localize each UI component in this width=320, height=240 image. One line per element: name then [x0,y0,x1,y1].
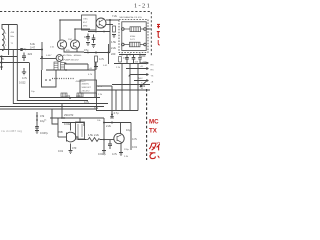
resistor R10 [119,57,122,63]
svg-text:10μ: 10μ [126,128,131,132]
svg-text:4.7k: 4.7k [88,74,93,76]
FL1 element lower hatch [131,42,138,47]
svg-text:2SC372: 2SC372 [82,91,91,93]
wire: arrow line y80 [134,80,149,82]
red margin clipped glyph top1 [157,24,160,28]
wire: FL1 upper output [146,28,151,30]
wire: S-meter vertical x37 [36,112,38,126]
wire: FL1 upper internal left [124,28,130,30]
svg-text:D-21: D-21 [130,39,136,41]
svg-text:§: § [5,33,7,35]
red margin note hiragana DE [150,153,156,159]
svg-text:B: B [2,57,4,61]
wire: long vertical outer [13,50,108,104]
wire: long vertical inner from top corner [17,25,88,101]
svg-text:455kHz: 455kHz [82,84,89,86]
transistor Q2 internals [73,42,77,48]
wire: x52 vertical to y124 [52,109,58,124]
wire: Q6 collector [120,123,122,134]
FL1 terminal: lower left [122,43,125,46]
wire: FL1 upper internal right [141,28,144,30]
wire: corner from box x116 [97,90,117,111]
ground: under C2 [86,43,90,46]
node: x37 y116 [36,115,38,117]
resistor R5 zigzag [86,138,102,142]
red margin clipped glyph top3 [158,40,160,45]
wire: top-left L to mixer [60,19,82,21]
svg-text:1.5k: 1.5k [88,133,94,137]
svg-text:MC: MC [149,119,159,126]
node: x66 y70 [65,69,67,71]
svg-text:+B: +B [151,82,154,84]
wire: emitters to rail [64,49,84,53]
mechanical filter FL1 inner case [122,22,146,51]
wire: vertical x138 [137,64,139,111]
FL1 terminal: upper left [122,28,125,31]
svg-text:45.7: 45.7 [83,22,88,24]
svg-text:10k: 10k [97,120,101,122]
capacitor C1 [22,53,26,62]
svg-text:+B: +B [140,66,143,68]
FL1 terminal: upper right [144,28,147,31]
wire: vertical x108 lower [108,44,110,64]
svg-text:2.2k: 2.2k [116,67,121,69]
node: x62 y106.5 [61,106,63,108]
ground: under R3 [94,67,98,70]
wire: horizontal y56 [0,56,17,58]
wire: arrow line y68 [126,68,149,70]
wire: top page-boundary dashed line [0,11,151,13]
wire: Q6 emitter [119,144,123,156]
node: junction y52 [95,52,97,54]
svg-text:45B: 45B [58,130,63,134]
wire: mixer to filter [106,19,119,21]
wire: U link under IF stage [42,70,57,87]
node: y31 dot x104 [103,31,105,33]
wire: vertical x130 [129,64,131,111]
node: x112 y122.5 [111,122,113,124]
wire: arrow line y63 [140,62,149,64]
wire: bus y106.5 [0,106,104,108]
node: row dots [121,54,123,56]
svg-text:1.5k: 1.5k [111,40,117,44]
node: junction left y56 [0,55,2,57]
wire: Q5 to R5 [76,137,86,140]
wire: R5 to Q6 base [100,139,114,141]
resistor R3 [95,56,98,62]
node: Q6 base dot [103,139,105,141]
capacitor C9 [110,117,114,119]
wire: right page-boundary dashed line lower [146,89,148,160]
wire: diagonal arrow [140,82,146,88]
wire: corner from box x112 [97,86,113,118]
svg-text:220: 220 [76,94,81,98]
wire: vertical x95 [94,62,96,98]
transistor Q6 circle [114,133,124,143]
transistor Q1 circle [57,40,66,49]
wire: FL1 lower internal left [124,44,129,46]
FL1 terminal: lower right [144,43,147,46]
mechanical filter FL1 dashed box [119,20,148,53]
svg-text:47p: 47p [22,47,27,51]
svg-text:2SC: 2SC [68,39,73,41]
svg-text:M: M [141,88,143,90]
wire: horizontal y62 [0,62,29,64]
wire: y122 mid branch [62,123,84,127]
wire: y64 upper rail [66,64,88,70]
ground: under R2 [112,35,116,38]
svg-text:45.7MHz→455kHz: 45.7MHz→455kHz [63,54,82,57]
IF transformer T2 box [76,122,85,139]
dotted row: IF strip [52,78,74,80]
svg-text:10k: 10k [66,94,71,98]
resistor R9 hatch [61,64,65,68]
resistor R7 hatch [79,93,82,97]
svg-text:4.7k: 4.7k [22,76,28,80]
node: small circle y49.5 [20,48,22,50]
svg-text:4.7k: 4.7k [84,100,90,104]
svg-text:10μ: 10μ [31,91,35,93]
svg-text:4.7k: 4.7k [112,152,118,156]
wire: line y84 [112,84,150,86]
wire: bus vertical mid-left [30,63,101,98]
node: left col dot3 [0,66,2,68]
red margin note dakuten [157,142,160,144]
node: dot a [45,79,47,81]
FL1 element upper hatch [132,27,139,32]
ground: under x104 [102,151,106,154]
ground: under Q5 [69,151,73,154]
wire: vertical x122 [121,64,123,111]
FL1 element upper [130,27,141,32]
red margin note katakana DA [149,143,156,150]
transformer T1 core [8,25,10,55]
svg-text:0.01: 0.01 [58,149,64,153]
node: junction left y62 [0,61,2,63]
transistor Q5 body [67,132,77,142]
svg-text:SSB DET: SSB DET [82,87,92,89]
svg-text:7.2k: 7.2k [112,14,118,18]
svg-text:1-21: 1-21 [134,3,151,10]
svg-text:455: 455 [11,32,15,34]
svg-text:RX: RX [151,65,155,67]
svg-text:TX: TX [151,76,154,78]
wire: y52 row to x110 [84,52,110,54]
wire: vertical x60 down to Q1 [59,20,61,40]
red margin note comma [158,156,159,158]
node: junction x108.5 y52.5 [108,52,110,54]
ground: S-meter [35,131,39,134]
wire: arrow line y74 [129,74,149,77]
svg-text:4.7k: 4.7k [99,57,105,61]
svg-text:MHz: MHz [83,26,88,28]
wire: x96 down from box [96,93,98,111]
svg-text:0.01: 0.01 [132,145,138,149]
svg-text:47μ: 47μ [84,48,89,52]
svg-text:2SC372: 2SC372 [64,113,74,117]
svg-text:kHz: kHz [11,36,15,38]
svg-text:10k: 10k [141,84,146,88]
transistor Q4 circle [56,55,63,62]
svg-text:220μ: 220μ [124,149,130,151]
wire: line y90 [112,89,150,91]
capacitor C8 [108,140,112,149]
node: x104 y122 [103,122,105,124]
wire: vertical x62 [61,104,63,118]
wire: y31 row [88,31,110,33]
detector box [80,80,97,93]
node: x62 y118 [61,117,63,119]
node: x66 y97 [69,97,71,99]
svg-text:220: 220 [141,54,146,58]
node: blob x64 y63 [65,63,67,65]
wire: y70 rail [46,69,95,71]
transistor Q6 internals [117,135,121,144]
svg-text:2.2k: 2.2k [111,46,117,50]
svg-text:10k: 10k [94,106,99,110]
capacitor C10 [138,55,142,64]
wire: x104 vertical [103,118,105,150]
wire: horizontal y50 [0,49,42,51]
resistor R7 on bus [77,93,83,97]
svg-text:2.2k: 2.2k [94,133,100,137]
resistor R6 hatch [63,93,66,97]
capacitor C2 [86,34,90,42]
FL1 element lower [130,42,141,47]
ground: under C3 [92,45,96,48]
transformer T1 winding [2,29,4,51]
wire: vertical x75 down to Q2 [74,29,76,40]
wire: bus y118 [50,117,104,119]
wire: cluster row y63.5 [114,63,146,65]
resistor R9 vertical [61,63,65,71]
T2 internal [78,124,82,137]
capacitor C5 [125,55,129,64]
svg-text:0.022: 0.022 [19,81,26,85]
svg-text:220: 220 [111,52,116,56]
svg-text:2.2k: 2.2k [98,94,103,96]
transistor Q3 mixer circle [96,18,106,28]
resistor R8 hatch [54,64,58,68]
wire: vertical x110 [109,20,111,53]
svg-text:1k: 1k [44,120,47,122]
wire: filter bottom row [119,54,146,56]
svg-text:t tu d m367 mrg: t tu d m367 mrg [1,129,22,133]
wire: inner L to Q2 [75,28,90,30]
capacitor C6 [132,55,136,64]
transistor Q3 internals [99,20,103,28]
svg-text:0.01: 0.01 [84,35,90,39]
capacitor C3 [92,35,96,44]
node: junction x110 y20 [109,19,111,21]
svg-text:T1: T1 [11,43,14,45]
node: y31 dot x96 [95,31,97,33]
wire: vertical x42 [41,42,43,70]
wire: right page-boundary dashed line upper [150,12,152,57]
wire: x131 vertical [130,123,132,151]
wire: R3 bottom [95,62,97,66]
wire: T1 top to node [2,25,17,30]
svg-text:0.047: 0.047 [46,55,52,57]
svg-text:0.047μ: 0.047μ [40,131,48,135]
transistor Q4 internals [58,56,61,61]
wire: bus y110.5 right half [96,110,138,112]
node: y118 dot x64 [63,117,65,119]
wire: Q2 emitter [76,49,78,53]
node: dot b [49,79,51,81]
wire: Q4 base [40,58,56,60]
svg-text:IF AMP 2SC372: IF AMP 2SC372 [63,59,79,62]
wire: Q5 emitter down [70,144,72,151]
wire: Q5 base [58,136,67,138]
wire: left column stub [1,57,3,71]
svg-text:47k: 47k [40,114,45,118]
svg-text:0.01: 0.01 [103,65,108,67]
wire: mixer second lead [106,24,113,26]
svg-text:RX: RX [151,70,155,72]
svg-text:TX: TX [149,128,158,135]
wire: Q5 collector up [70,123,72,131]
svg-text:AGC: AGC [138,77,143,80]
svg-text:4.7k: 4.7k [132,137,138,141]
red margin note katakana I [157,144,160,151]
wire: x58 vertical [57,118,59,137]
resistor R8 vertical [54,62,58,70]
svg-text:.022: .022 [27,52,33,56]
transistor Q2 circle [70,40,79,49]
svg-text:0.022μ: 0.022μ [98,152,106,156]
svg-text:§: § [5,45,7,47]
node: corner dot x75 y29 [74,28,76,30]
wire: bus y109 [0,108,96,110]
svg-text:0.47: 0.47 [30,46,36,50]
oscillator box [82,15,97,30]
svg-text:4.7μ: 4.7μ [114,111,120,115]
resistor R2 [113,26,116,32]
ground: under C1 [22,68,26,75]
wire: T2 top [79,118,81,122]
svg-text:§: § [5,39,7,41]
tiny component value texts [2,14,154,158]
transistor Q1 internals [60,42,64,48]
svg-text:2.2k: 2.2k [106,124,112,128]
svg-text:0.01: 0.01 [50,47,55,49]
node: x42 y49.5 [41,49,43,51]
red margin clipped glyph top2 [157,31,160,38]
node: corner dot x60 y20 [59,19,61,21]
svg-text:3.3k: 3.3k [124,156,129,158]
node: y52 dot x88 [87,52,89,54]
svg-text:MECHANICAL FIL 455: MECHANICAL FIL 455 [120,16,143,19]
svg-text:0.022: 0.022 [64,122,71,126]
svg-text:473: 473 [72,146,77,150]
resistor R6 on bus [61,93,67,97]
node: x37 y120 [36,119,38,121]
wire: y122 rail bottom right [104,122,131,124]
capacitor C7 [35,127,39,131]
node: x42 y57 [41,56,43,58]
svg-text:6.3k: 6.3k [30,42,36,46]
svg-text:455H: 455H [130,36,136,38]
node: x112 y114.5 [111,114,113,116]
wire: FL1 lower internal right [140,44,144,46]
svg-text:OSC: OSC [83,19,88,21]
